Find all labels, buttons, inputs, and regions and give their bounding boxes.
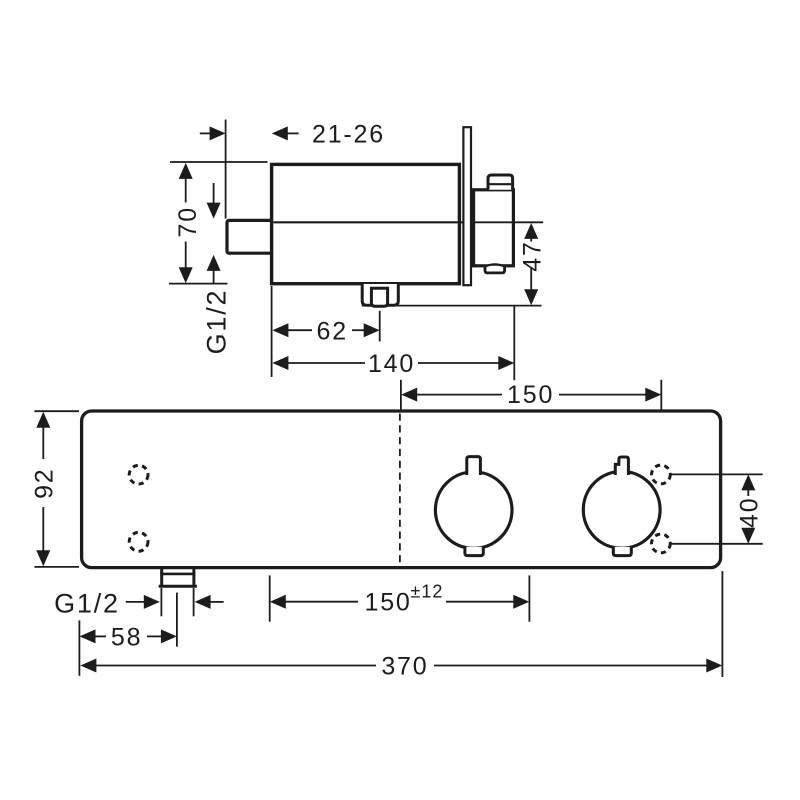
dimension 150±12: left arrowhead xyxy=(270,595,286,609)
dimension 47: vertical line xyxy=(530,238,532,241)
dimension 70: bottom arrowhead xyxy=(179,267,193,283)
bottom outlet body xyxy=(362,284,398,305)
dimension 40: vertical line xyxy=(747,490,749,496)
centre line through knob to 47 dim xyxy=(471,221,543,223)
outlet centreline xyxy=(176,593,178,647)
front outlet right side xyxy=(192,569,195,587)
dimension 70: top arrowhead xyxy=(179,163,193,179)
svg-text:140: 140 xyxy=(368,350,415,378)
front panel xyxy=(82,411,721,568)
panel right edge extension line xyxy=(721,571,723,677)
dashed mounting hole left bottom xyxy=(129,532,148,551)
mixer body xyxy=(272,164,460,283)
G1/2 leader: up arrowhead to spigot bottom xyxy=(207,255,221,271)
body left edge extension line downward xyxy=(271,286,273,377)
dimension 140: right arrowhead xyxy=(498,356,514,370)
dashed hole right top xyxy=(652,465,671,484)
dimension 62: right arrowhead xyxy=(364,323,380,337)
svg-text:92: 92 xyxy=(31,467,59,498)
dimension 370: left arrowhead xyxy=(80,659,96,673)
dimension 40: down arrowhead xyxy=(741,528,755,544)
svg-text:40: 40 xyxy=(736,497,764,528)
svg-text:21-26: 21-26 xyxy=(312,121,385,149)
knob bottom tab arc xyxy=(486,264,504,266)
dimension 150 top: left arrowhead xyxy=(401,388,417,402)
svg-text:G1/2: G1/2 xyxy=(54,588,120,618)
G1/2 right-pointing arrowhead xyxy=(144,595,160,609)
dimension 370: right arrowhead xyxy=(706,659,722,673)
knob side view: bottom tab xyxy=(485,266,505,273)
dimension 370: line segments xyxy=(96,665,376,667)
extension lines for 92 xyxy=(34,410,79,412)
G1/2 leader: down arrowhead to spigot top xyxy=(207,203,221,219)
panel left edge extension line xyxy=(78,620,80,675)
extension line under bottom outlet (for 47) xyxy=(362,305,542,307)
extension line at knob face xyxy=(513,306,515,380)
dimension 58: left arrowhead xyxy=(80,629,96,643)
dimension 92: top arrowhead xyxy=(36,412,50,428)
dimension 92: bottom arrowhead xyxy=(36,550,50,566)
front outlet lower cap line xyxy=(159,585,197,588)
extension line: body top edge extended left xyxy=(170,161,268,163)
G1/2 leader: lower tail xyxy=(213,270,215,283)
leader line from bottom right hole xyxy=(671,543,763,545)
dimension 21-26: right tail line xyxy=(287,132,298,134)
G1/2 leader: upper tail xyxy=(213,183,215,203)
front outlet upper line xyxy=(160,573,195,576)
dimension 150 top: line segments xyxy=(417,394,502,396)
supply extension line right xyxy=(528,575,530,621)
extension line at outlet centre xyxy=(379,311,381,342)
extension line: right knob axis xyxy=(660,380,662,447)
dimension 140: left arrowhead xyxy=(272,356,288,370)
dimension 62: left arrowhead xyxy=(272,323,288,337)
dimension 92: vertical line xyxy=(42,427,44,459)
dimension 21-26: left-pointing arrowhead at body face xyxy=(272,126,288,140)
svg-text:G1/2: G1/2 xyxy=(202,289,232,355)
dimension 21-26: left tail line xyxy=(200,132,211,134)
dimension 21-26: right-pointing arrowhead xyxy=(210,126,226,140)
right knob top tab with safety step xyxy=(615,457,628,475)
svg-text:70: 70 xyxy=(174,206,202,237)
dashed hole right bottom xyxy=(652,534,671,553)
G1/2 right tail xyxy=(210,601,224,603)
dimension 140: line segments xyxy=(288,362,365,364)
wall plate (glass plate edge) xyxy=(463,127,471,285)
G1/2 left-pointing arrowhead xyxy=(195,595,211,609)
dimension 150±12: line segments xyxy=(285,601,358,603)
svg-text:58: 58 xyxy=(111,623,142,651)
svg-text:47: 47 xyxy=(518,240,546,271)
left knob top tab xyxy=(467,457,481,475)
dimension 70: vertical dimension line xyxy=(186,177,203,179)
extension line: outlet centreline above panel xyxy=(400,380,402,411)
dimension 47: up arrowhead xyxy=(524,223,538,239)
left knob circle xyxy=(435,472,512,549)
body centre feature line xyxy=(274,221,463,223)
outlet thread extension left xyxy=(160,588,162,616)
svg-text:370: 370 xyxy=(381,653,428,681)
right knob bottom tab xyxy=(613,547,631,556)
extension line at spigot face xyxy=(225,120,227,219)
right knob circle xyxy=(583,471,660,548)
svg-text:150: 150 xyxy=(507,381,554,409)
svg-text:62: 62 xyxy=(316,317,347,345)
bottom outlet cap xyxy=(371,288,387,306)
svg-text:±12: ±12 xyxy=(411,582,444,602)
G1/2 leader tail xyxy=(126,601,145,603)
dimension 58: line segments xyxy=(95,635,106,637)
dashed centreline between supplies xyxy=(399,414,401,567)
knob side view: top grip tab xyxy=(488,175,513,190)
svg-text:150: 150 xyxy=(365,589,412,617)
dimension 150±12: right arrowhead xyxy=(513,595,529,609)
dimension 58: right arrowhead xyxy=(161,629,177,643)
knob side view: disc xyxy=(474,190,514,266)
left knob bottom tab xyxy=(465,547,483,556)
extension line: body bottom edge extended left xyxy=(169,283,228,285)
wall connection spigot G1/2 xyxy=(227,220,273,253)
dashed mounting hole left top xyxy=(129,465,148,484)
supply extension line left xyxy=(269,575,271,621)
dimension 62: line segments xyxy=(288,329,312,331)
dimension 150 top: right arrowhead xyxy=(645,388,661,402)
dimension 47: down arrowhead xyxy=(524,289,538,305)
front outlet under panel: left side xyxy=(160,569,163,587)
outlet thread extension right xyxy=(193,588,195,616)
dimension 40: up arrowhead xyxy=(741,474,755,490)
leader line from top right hole xyxy=(671,473,763,475)
knob top tab inner line xyxy=(490,183,512,185)
